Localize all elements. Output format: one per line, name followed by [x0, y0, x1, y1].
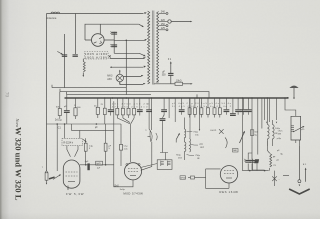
wire bottom right	[253, 159, 290, 176]
label GPGU	[180, 176, 186, 179]
tube V2	[63, 160, 80, 188]
svg-text:750µ: 750µ	[176, 154, 181, 156]
tube V4	[220, 166, 237, 183]
svg-text:220: 220	[161, 19, 166, 22]
wire y40.3	[114, 39, 145, 41]
wire drops right	[252, 98, 277, 155]
antenna coil L1	[51, 12, 60, 13]
switch cap K1	[62, 55, 67, 57]
svg-text:*: *	[279, 179, 280, 181]
coil L2b	[184, 142, 186, 152]
arc1	[156, 133, 157, 140]
winding L2c	[190, 139, 191, 153]
svg-text:FW 5,3W: FW 5,3W	[66, 192, 84, 196]
junction line y124	[47, 101, 122, 171]
transformer primary	[148, 11, 150, 84]
switch cap K2	[73, 55, 78, 57]
switch S1a	[144, 12, 147, 14]
arrow right of box	[83, 139, 86, 141]
svg-text:A3V: A3V	[107, 78, 112, 81]
voltage taps	[159, 12, 166, 14]
cap C2	[111, 44, 117, 45]
resistor R5	[84, 143, 87, 151]
cap C3 350	[168, 73, 173, 75]
wire V3 top	[141, 98, 152, 170]
svg-text:µF 4n5 C1µ 30 1n5 p5 4n 50 4n: µF 4n5 C1µ 30 1n5 p5 4n 50 4n	[172, 103, 232, 105]
switch S1b	[139, 24, 143, 26]
svg-text:GPGU: GPGU	[180, 178, 186, 180]
terminal F1	[170, 63, 172, 74]
IF box	[157, 160, 172, 170]
component row	[116, 98, 118, 108]
leaders L2	[187, 132, 199, 156]
svg-text:Ohm: Ohm	[278, 130, 283, 132]
svg-text:13n0: 13n0	[114, 186, 120, 188]
wire drop x126.3	[125, 40, 127, 94]
svg-text:240: 240	[161, 11, 166, 14]
terminal E	[305, 169, 307, 182]
wire drop x75.5	[75, 14, 77, 55]
svg-text:Antenne: Antenne	[46, 16, 57, 20]
pot arrow	[53, 175, 60, 180]
wire to tube1 grid	[65, 124, 114, 138]
resistor R8	[188, 177, 191, 179]
wire y163	[80, 164, 114, 166]
wire selector line	[171, 21, 190, 23]
comp x46.5	[45, 171, 48, 173]
svg-text:R 0224 h: R 0224 h	[63, 142, 73, 145]
resistor R9 zigzag	[267, 141, 269, 153]
wire spk	[285, 98, 296, 143]
wire diag V3	[141, 164, 158, 168]
wire 10k line	[171, 83, 175, 85]
wire cap column	[113, 32, 115, 54]
lever ext	[241, 166, 243, 171]
wire x149 lower	[149, 116, 150, 131]
svg-text:50n: 50n	[255, 132, 258, 134]
tube label box	[84, 52, 108, 59]
bus arrow right	[287, 97, 289, 99]
dashed box R0224	[62, 138, 83, 145]
svg-text:MV3: MV3	[107, 75, 113, 78]
page number	[4, 92, 9, 98]
wire y58.4	[110, 57, 144, 59]
svg-text:4W: 4W	[278, 133, 281, 135]
svg-text:125: 125	[161, 27, 166, 30]
wire y170.6	[242, 170, 268, 172]
switch lever	[241, 98, 243, 166]
IF transformer	[267, 124, 269, 138]
margin title text	[14, 118, 23, 201]
svg-text:13n 4700 p50 2n: 13n 4700 p50 2n	[112, 104, 148, 106]
bus line 3	[67, 92, 152, 95]
svg-text:1905 A/38V: 1905 A/38V	[85, 55, 107, 59]
switch arrow K1	[57, 51, 62, 54]
wire box to tube	[67, 146, 78, 157]
transformer secondary	[157, 12, 159, 83]
wire y53.3	[114, 53, 145, 56]
svg-text:10kΩ: 10kΩ	[176, 80, 182, 82]
switch X3	[272, 171, 277, 186]
wire heater3	[120, 84, 143, 86]
wire V3 bottom	[114, 124, 133, 187]
wire left rail	[46, 14, 48, 171]
dial lamp LP1	[116, 74, 123, 81]
caps 4uF	[248, 153, 252, 171]
comp 50n6u	[250, 130, 253, 136]
bus line 1	[52, 85, 126, 88]
wire V4 cathode	[206, 169, 229, 188]
wire heater1	[110, 66, 144, 68]
bus tick x197	[196, 94, 198, 98]
ground lead	[298, 146, 300, 180]
ground chassis	[289, 189, 310, 194]
wire top rail	[47, 13, 144, 15]
svg-text:5n0µ: 5n0µ	[120, 189, 126, 191]
svg-text:50 4µ5 C30 µ1 5p 4n 05 4n 2: 50 4µ5 C30 µ1 5p 4n 05 4n 2	[172, 106, 232, 108]
svg-text:Nora: Nora	[15, 118, 20, 128]
wire x162	[160, 115, 168, 160]
output transformer T2	[291, 116, 301, 140]
wire xfmr bottom	[154, 83, 171, 86]
coil L2a	[184, 129, 185, 138]
drop arrows	[266, 122, 267, 124]
left components	[59, 92, 61, 109]
switch lever L2	[176, 134, 179, 140]
svg-text:150: 150	[161, 23, 166, 26]
transformer core	[153, 11, 154, 85]
svg-text:70: 70	[4, 92, 9, 98]
bus line 2	[60, 89, 209, 98]
svg-text:2x0,1µ: 2x0,1µ	[55, 119, 63, 121]
caps under y163	[87, 163, 89, 170]
wire x199	[199, 98, 201, 130]
cap hatched	[254, 159, 259, 163]
svg-text:UH 21: UH 21	[210, 130, 217, 132]
bus line 4 thick	[65, 97, 289, 99]
arc2	[225, 138, 227, 149]
svg-text:25G: 25G	[178, 158, 182, 160]
junction dots	[104, 97, 106, 99]
svg-text:RES 164W: RES 164W	[219, 190, 238, 194]
wire x64.4 seg	[63, 34, 65, 88]
svg-text:M0D 5743W: M0D 5743W	[123, 192, 143, 196]
switch lens	[150, 131, 152, 142]
svg-text:8FP: 8FP	[200, 147, 204, 149]
mains antenna	[293, 88, 295, 98]
resistor R6	[104, 143, 107, 151]
label DAV	[233, 149, 239, 153]
box C1u	[120, 124, 122, 166]
rectifier tube V1	[92, 34, 105, 47]
svg-text:W 320 und W 320 L: W 320 und W 320 L	[14, 127, 23, 201]
cap C1	[111, 32, 117, 33]
wire rect rail	[85, 24, 139, 40]
wire heater2	[124, 76, 142, 78]
resistor R1 zigzag	[83, 62, 85, 72]
tube V3	[124, 163, 141, 180]
merge wires	[117, 118, 134, 162]
